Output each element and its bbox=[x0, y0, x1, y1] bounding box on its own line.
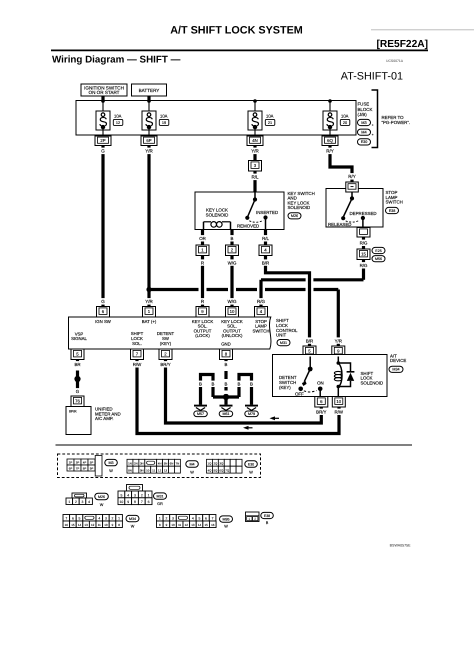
svg-text:1: 1 bbox=[248, 517, 250, 521]
svg-text:4: 4 bbox=[88, 500, 90, 504]
svg-text:BATTERY: BATTERY bbox=[139, 88, 160, 93]
svg-text:SOLENOID: SOLENOID bbox=[361, 380, 384, 385]
svg-text:R/Y: R/Y bbox=[348, 174, 356, 179]
svg-text:4N: 4N bbox=[252, 138, 258, 143]
svg-text:E30: E30 bbox=[361, 140, 368, 144]
svg-text:16: 16 bbox=[65, 523, 69, 527]
svg-text:10: 10 bbox=[146, 469, 150, 473]
svg-text:IGN SW: IGN SW bbox=[95, 319, 112, 324]
svg-text:B: B bbox=[199, 382, 202, 387]
svg-text:R/W: R/W bbox=[133, 362, 142, 367]
svg-text:4N: 4N bbox=[158, 462, 162, 466]
wire label B bbox=[224, 361, 228, 367]
AT device pin 10 bbox=[332, 397, 345, 408]
svg-text:AT-SHIFT-01: AT-SHIFT-01 bbox=[341, 71, 403, 83]
connector oval M34 bbox=[389, 366, 403, 372]
wire battery to fuse block bbox=[147, 96, 150, 101]
connector oval M4 face bbox=[186, 461, 199, 467]
svg-text:DEVICE: DEVICE bbox=[390, 358, 406, 363]
harness connector 15 E25 M56 bbox=[357, 249, 370, 260]
wire label R/L bbox=[250, 174, 259, 181]
svg-text:M26: M26 bbox=[291, 214, 298, 218]
wire label BR/Y at AT device bbox=[316, 409, 328, 415]
svg-text:M4: M4 bbox=[361, 130, 367, 135]
wire label BR/Y below pin2 bbox=[160, 361, 172, 367]
svg-text:12: 12 bbox=[91, 523, 95, 527]
key switch pin 4 bbox=[259, 245, 272, 256]
connector oval E30 bbox=[358, 139, 371, 145]
svg-text:E38: E38 bbox=[264, 514, 270, 518]
svg-text:10: 10 bbox=[104, 523, 108, 527]
svg-text:3N: 3N bbox=[140, 462, 144, 466]
svg-text:11: 11 bbox=[98, 523, 101, 527]
svg-text:M56: M56 bbox=[375, 257, 382, 261]
wire W/G key lock output unlock bbox=[230, 256, 233, 307]
connector oval M34 face bbox=[126, 515, 139, 521]
wire label R/W at AT device bbox=[334, 409, 344, 415]
svg-text:UCS0071A: UCS0071A bbox=[386, 59, 404, 63]
wire label B/R at AT device bbox=[305, 337, 314, 343]
svg-text:4: 4 bbox=[127, 493, 129, 497]
junction dots on fuse block bus bbox=[101, 99, 105, 103]
svg-text:R/W: R/W bbox=[335, 410, 344, 415]
svg-text:SOLENOID: SOLENOID bbox=[206, 213, 229, 218]
key switch contacts bbox=[245, 192, 267, 230]
ignition switch source box bbox=[81, 84, 127, 96]
control unit pin 7 bbox=[131, 349, 144, 360]
connector oval M26 face bbox=[95, 493, 109, 500]
shift lock solenoid coil and diode bbox=[334, 357, 354, 397]
svg-text:2: 2 bbox=[165, 517, 167, 521]
svg-text:W: W bbox=[224, 524, 228, 528]
svg-text:M3: M3 bbox=[108, 461, 113, 465]
svg-text:ON OR START: ON OR START bbox=[89, 90, 120, 95]
wire label R/L bbox=[261, 235, 270, 241]
svg-text:3: 3 bbox=[105, 517, 107, 521]
ground splice dot bbox=[223, 394, 229, 400]
svg-text:9P: 9P bbox=[90, 467, 94, 471]
control unit pin 2 bbox=[159, 349, 172, 360]
connector face E30 grid bbox=[207, 459, 243, 473]
svg-text:10A: 10A bbox=[266, 113, 274, 118]
connector pin 6P bbox=[141, 136, 157, 146]
ground bus horizontal bbox=[213, 395, 239, 398]
svg-text:8P/R: 8P/R bbox=[69, 409, 77, 413]
svg-text:Wiring Diagram — SHIFT —: Wiring Diagram — SHIFT — bbox=[52, 54, 181, 65]
unified meter and a/c amp box bbox=[66, 407, 121, 435]
svg-text:10: 10 bbox=[336, 399, 341, 404]
connector oval M4 bbox=[358, 129, 371, 135]
wire label B/R bbox=[261, 259, 270, 265]
svg-text:M34: M34 bbox=[392, 368, 399, 372]
fuse block label bbox=[358, 102, 373, 118]
svg-text:9: 9 bbox=[127, 500, 129, 504]
svg-text:20: 20 bbox=[343, 121, 347, 125]
svg-text:6N: 6N bbox=[170, 462, 174, 466]
svg-text:Y/R: Y/R bbox=[145, 299, 153, 304]
ground bridge right bbox=[239, 375, 252, 403]
svg-text:W: W bbox=[131, 524, 135, 528]
joint connector 3 bbox=[249, 161, 262, 172]
AT device box M34 bbox=[273, 355, 388, 397]
svg-text:14: 14 bbox=[78, 523, 82, 527]
svg-text:BLOCK: BLOCK bbox=[358, 107, 373, 112]
wire label Y/R bbox=[144, 148, 153, 155]
wire R key lock output lock bbox=[201, 256, 204, 307]
svg-text:16: 16 bbox=[211, 523, 215, 527]
svg-text:12: 12 bbox=[185, 523, 189, 527]
svg-text:8P: 8P bbox=[83, 467, 87, 471]
wire R/L to key switch bbox=[253, 171, 256, 199]
svg-text:R/G: R/G bbox=[257, 299, 266, 304]
svg-text:(LOCK): (LOCK) bbox=[195, 333, 210, 338]
svg-text:B: B bbox=[250, 382, 253, 387]
svg-text:E38: E38 bbox=[389, 209, 396, 213]
svg-text:3P: 3P bbox=[76, 461, 80, 465]
svg-text:5N: 5N bbox=[164, 462, 168, 466]
svg-text:6: 6 bbox=[205, 517, 207, 521]
svg-text:B: B bbox=[238, 382, 241, 387]
section separator line bbox=[56, 444, 413, 446]
svg-text:R/G: R/G bbox=[360, 241, 368, 246]
svg-text:10A: 10A bbox=[160, 113, 168, 118]
wire BR/Y return bbox=[166, 360, 322, 424]
svg-text:4: 4 bbox=[192, 517, 194, 521]
connector oval E38 face bbox=[261, 512, 274, 518]
control unit pin 6 bbox=[97, 307, 110, 318]
header rule bbox=[51, 49, 428, 51]
shift lock solenoid label bbox=[361, 371, 384, 386]
svg-text:OFF: OFF bbox=[295, 391, 304, 396]
svg-text:1: 1 bbox=[148, 493, 150, 497]
wire label R/G above unit bbox=[256, 298, 265, 305]
svg-text:3: 3 bbox=[172, 517, 174, 521]
svg-text:“PG-POWER”.: “PG-POWER”. bbox=[382, 120, 411, 125]
connector pin 2P bbox=[95, 136, 111, 146]
svg-text:W/G: W/G bbox=[228, 299, 237, 304]
svg-text:4: 4 bbox=[98, 517, 100, 521]
control unit pin 10 bbox=[226, 307, 239, 318]
svg-text:Y/R: Y/R bbox=[335, 338, 342, 343]
svg-text:8: 8 bbox=[134, 500, 136, 504]
svg-text:B: B bbox=[231, 236, 234, 241]
direction arrow on R/W bbox=[243, 426, 253, 430]
connector oval E30 face bbox=[245, 461, 257, 467]
key switch label bbox=[288, 191, 315, 210]
svg-text:BAT (+): BAT (+) bbox=[142, 319, 157, 324]
key switch pin 2 bbox=[226, 245, 239, 256]
svg-text:REFER TO: REFER TO bbox=[382, 115, 405, 120]
svg-text:M79: M79 bbox=[248, 412, 255, 416]
svg-text:5: 5 bbox=[198, 517, 200, 521]
svg-text:7N: 7N bbox=[176, 462, 180, 466]
stop lamp switch contacts bbox=[341, 192, 365, 227]
ground symbol M61 bbox=[220, 402, 233, 410]
svg-text:M3: M3 bbox=[361, 120, 366, 125]
connector face M26 bbox=[66, 493, 92, 505]
svg-text:7: 7 bbox=[141, 500, 143, 504]
wire R/W return bbox=[137, 360, 339, 434]
svg-text:FUSE: FUSE bbox=[358, 102, 370, 107]
wire label Y/R above unit bbox=[144, 298, 153, 305]
svg-text:9N: 9N bbox=[140, 469, 144, 473]
wire Y/R branch to AT device bbox=[146, 287, 151, 292]
svg-text:R: R bbox=[201, 260, 204, 265]
svg-text:1: 1 bbox=[159, 517, 161, 521]
control unit pin 8 bbox=[220, 349, 233, 360]
svg-text:2P: 2P bbox=[69, 461, 73, 465]
svg-text:M4: M4 bbox=[189, 462, 194, 466]
svg-text:(UNLOCK): (UNLOCK) bbox=[222, 333, 243, 338]
svg-text:10A: 10A bbox=[114, 113, 122, 118]
svg-text:2: 2 bbox=[112, 517, 114, 521]
svg-text:GND: GND bbox=[221, 342, 231, 347]
svg-text:SOL.: SOL. bbox=[132, 341, 142, 346]
connector pin 4N bbox=[247, 136, 263, 146]
svg-text:2: 2 bbox=[141, 493, 143, 497]
svg-text:3: 3 bbox=[82, 500, 84, 504]
svg-text:2: 2 bbox=[75, 500, 77, 504]
control unit pin 1 bbox=[143, 307, 156, 318]
svg-text:R/L: R/L bbox=[262, 236, 269, 241]
wire label G bbox=[101, 148, 105, 155]
svg-text:W: W bbox=[249, 470, 253, 474]
svg-text:SIGNAL: SIGNAL bbox=[71, 336, 87, 341]
svg-text:INSERTED: INSERTED bbox=[256, 210, 278, 215]
svg-text:A/T SHIFT LOCK SYSTEM: A/T SHIFT LOCK SYSTEM bbox=[170, 25, 303, 37]
svg-text:M31: M31 bbox=[280, 341, 287, 345]
svg-text:21: 21 bbox=[268, 121, 272, 125]
svg-text:G: G bbox=[76, 389, 80, 394]
control unit label bbox=[276, 318, 298, 337]
svg-text:5: 5 bbox=[120, 493, 122, 497]
svg-text:W: W bbox=[100, 503, 104, 507]
svg-text:GR: GR bbox=[157, 502, 163, 506]
svg-text:10: 10 bbox=[120, 500, 124, 504]
svg-text:M57: M57 bbox=[197, 412, 204, 416]
svg-text:6P: 6P bbox=[69, 467, 73, 471]
svg-text:SOLENOID: SOLENOID bbox=[288, 205, 311, 210]
key switch pin 1 bbox=[196, 245, 209, 256]
svg-text:W/G: W/G bbox=[228, 260, 237, 265]
svg-text:12: 12 bbox=[116, 121, 120, 125]
svg-text:2: 2 bbox=[254, 517, 256, 521]
svg-text:15: 15 bbox=[204, 523, 208, 527]
svg-text:7P: 7P bbox=[76, 467, 80, 471]
svg-text:15: 15 bbox=[361, 252, 366, 257]
svg-text:RELEASED: RELEASED bbox=[328, 222, 351, 227]
wire label R bbox=[201, 259, 205, 265]
svg-text:UNIT: UNIT bbox=[276, 333, 287, 338]
connector oval M26 bbox=[288, 213, 301, 219]
svg-text:[RE5F22A]: [RE5F22A] bbox=[376, 39, 428, 50]
connector oval M3 bbox=[358, 119, 371, 125]
connector oval M95 face bbox=[220, 516, 233, 522]
wire Y/R to joint connector bbox=[253, 146, 256, 161]
wire label R/Y bbox=[347, 173, 356, 180]
wire label W/G bbox=[228, 259, 237, 265]
svg-text:6: 6 bbox=[148, 500, 150, 504]
connector oval M3 face bbox=[105, 459, 118, 465]
svg-text:13: 13 bbox=[84, 523, 88, 527]
connector oval M31 face bbox=[154, 493, 167, 499]
svg-text:W: W bbox=[190, 470, 194, 474]
svg-text:G: G bbox=[101, 149, 105, 154]
svg-text:2P: 2P bbox=[100, 138, 105, 143]
svg-text:1: 1 bbox=[118, 517, 120, 521]
wire label G above unit bbox=[101, 298, 105, 305]
dashed connector group box bbox=[58, 454, 261, 478]
svg-text:76: 76 bbox=[75, 399, 80, 404]
direction arrow on BR/Y bbox=[270, 416, 280, 420]
ground symbol M57 bbox=[194, 402, 207, 410]
svg-text:BR/Y: BR/Y bbox=[160, 362, 170, 367]
wire B/R detent switch feed bbox=[266, 256, 310, 347]
svg-text:7: 7 bbox=[65, 517, 67, 521]
stop lamp switch box E38 bbox=[326, 189, 383, 228]
fuse 10A 21 bbox=[248, 101, 275, 137]
svg-text:19: 19 bbox=[162, 121, 166, 125]
svg-text:SWITCH: SWITCH bbox=[386, 200, 403, 205]
wire stub pin 4 bbox=[264, 230, 267, 246]
connector face M95 bbox=[157, 515, 217, 528]
svg-text:DEPRESSED: DEPRESSED bbox=[350, 211, 377, 216]
wire R/G stop lamp to control unit bbox=[362, 260, 365, 280]
key lock solenoid coil bbox=[204, 222, 231, 230]
wire R/Y stop lamp feed bbox=[330, 146, 352, 184]
wire label BR bbox=[74, 361, 81, 367]
svg-text:11: 11 bbox=[178, 523, 181, 527]
ground bridge left bbox=[201, 375, 214, 403]
svg-text:10: 10 bbox=[230, 309, 235, 314]
wire label R/G bbox=[359, 262, 368, 268]
connector face E38 bbox=[246, 512, 260, 522]
key switch and key lock solenoid box M26 bbox=[195, 192, 284, 230]
detent switch label bbox=[279, 375, 297, 390]
svg-text:BR: BR bbox=[74, 362, 80, 367]
connector face M34 bbox=[63, 515, 122, 528]
shift lock control unit box M31 bbox=[69, 317, 271, 349]
wire label G bbox=[76, 388, 80, 394]
svg-text:(KEY): (KEY) bbox=[279, 385, 291, 390]
svg-text:13: 13 bbox=[191, 523, 195, 527]
svg-text:E25: E25 bbox=[375, 249, 381, 253]
splice dot bbox=[74, 376, 80, 382]
wire labels B on ground legs bbox=[199, 381, 203, 387]
svg-text:OR: OR bbox=[199, 236, 206, 241]
svg-text:REMOVED: REMOVED bbox=[237, 223, 259, 228]
control unit pin 5 bbox=[71, 349, 84, 360]
svg-text:13: 13 bbox=[164, 469, 168, 473]
svg-text:B: B bbox=[266, 521, 269, 525]
svg-text:5P: 5P bbox=[90, 461, 94, 465]
svg-text:BR/Y: BR/Y bbox=[316, 410, 326, 415]
svg-text:15: 15 bbox=[71, 523, 75, 527]
svg-text:A/C AMP.: A/C AMP. bbox=[95, 416, 113, 421]
wire G ignition feed bbox=[101, 146, 104, 307]
control unit pin 4 bbox=[255, 307, 268, 318]
svg-text:7: 7 bbox=[212, 517, 214, 521]
wire label W/G above unit bbox=[227, 298, 237, 305]
svg-text:12: 12 bbox=[158, 469, 162, 473]
wire label R above unit bbox=[200, 298, 204, 305]
AT device label bbox=[390, 353, 406, 363]
svg-text:2N: 2N bbox=[134, 462, 138, 466]
svg-text:4P: 4P bbox=[83, 461, 87, 465]
svg-text:M34: M34 bbox=[129, 517, 136, 521]
fuse 10A 19 bbox=[142, 101, 169, 137]
svg-text:6P: 6P bbox=[146, 138, 151, 143]
svg-text:B/R: B/R bbox=[306, 338, 313, 343]
svg-text:Y/R: Y/R bbox=[145, 149, 153, 154]
wire label R/Y bbox=[325, 148, 334, 155]
svg-text:B: B bbox=[225, 382, 228, 387]
wire ignition to fuse block bbox=[101, 96, 104, 101]
bracket refer to PG-POWER bbox=[372, 90, 378, 148]
AT device pin 6 bbox=[315, 397, 328, 408]
wire label O/R bbox=[199, 235, 206, 241]
fuse block J/B box bbox=[76, 101, 356, 136]
svg-text:(KEY): (KEY) bbox=[160, 341, 172, 346]
svg-text:(J/B): (J/B) bbox=[358, 112, 368, 117]
header top faint rule bbox=[371, 29, 474, 31]
connector oval E38 bbox=[386, 207, 399, 213]
svg-text:14: 14 bbox=[198, 523, 202, 527]
stop lamp switch top pin bbox=[346, 182, 359, 192]
svg-text:B: B bbox=[212, 382, 215, 387]
fuse 10A 20 bbox=[323, 101, 350, 137]
svg-text:R/G: R/G bbox=[360, 263, 368, 268]
wire stub pin 2 bbox=[230, 230, 233, 246]
AT device pin 5 bbox=[303, 346, 316, 357]
svg-text:R/Y: R/Y bbox=[326, 149, 334, 154]
svg-text:Y/R: Y/R bbox=[251, 149, 259, 154]
wire B ground dashed bbox=[224, 360, 227, 396]
control unit pin 9 bbox=[196, 307, 209, 318]
connector pin 6Q bbox=[322, 136, 338, 146]
svg-text:R/L: R/L bbox=[251, 175, 259, 180]
connector face M3 grid bbox=[67, 456, 102, 477]
svg-text:BSWA0575E: BSWA0575E bbox=[390, 543, 411, 547]
stop lamp switch label bbox=[386, 190, 403, 205]
svg-text:5: 5 bbox=[79, 517, 81, 521]
svg-text:B: B bbox=[225, 362, 228, 367]
svg-text:M61: M61 bbox=[223, 412, 230, 416]
battery source box bbox=[132, 84, 167, 96]
stop lamp switch bottom pin bbox=[357, 228, 370, 238]
svg-text:M26: M26 bbox=[98, 495, 105, 499]
svg-text:G: G bbox=[101, 299, 105, 304]
svg-text:SWITCH: SWITCH bbox=[253, 328, 270, 333]
svg-text:10A: 10A bbox=[341, 113, 349, 118]
svg-text:B/R: B/R bbox=[262, 260, 269, 265]
wire label Y/R at AT device bbox=[334, 337, 343, 343]
wire BR dashed to splice bbox=[76, 360, 79, 395]
svg-text:1N: 1N bbox=[128, 462, 132, 466]
wire center to ground bbox=[224, 397, 227, 402]
control unit pin labels bottom bbox=[71, 331, 231, 346]
wire label B bbox=[230, 235, 234, 241]
svg-text:1: 1 bbox=[68, 500, 70, 504]
fuse 10A 12 bbox=[96, 101, 123, 137]
svg-text:6: 6 bbox=[72, 517, 74, 521]
wire stub pin 1 bbox=[201, 230, 204, 246]
svg-text:6Q: 6Q bbox=[327, 138, 333, 143]
svg-text:W: W bbox=[109, 469, 113, 473]
svg-text:3: 3 bbox=[134, 493, 136, 497]
svg-text:ON: ON bbox=[317, 380, 324, 385]
wire label R/W below pin7 bbox=[133, 361, 143, 367]
